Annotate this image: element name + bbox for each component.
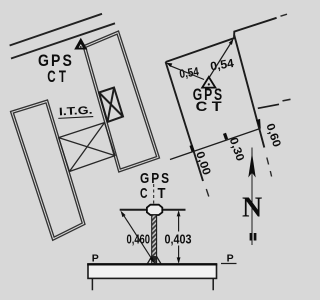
svg-text:C T: C T bbox=[196, 98, 223, 114]
svg-text:T: T bbox=[158, 185, 166, 202]
svg-text:N: N bbox=[242, 193, 262, 224]
svg-text:C: C bbox=[140, 185, 148, 202]
svg-text:C T: C T bbox=[47, 68, 66, 86]
svg-text:0,403: 0,403 bbox=[165, 232, 192, 246]
svg-text:I.T.G.: I.T.G. bbox=[59, 105, 93, 119]
svg-text:0,54: 0,54 bbox=[178, 64, 200, 81]
svg-text:P: P bbox=[227, 253, 234, 265]
svg-text:0,460: 0,460 bbox=[127, 232, 151, 246]
svg-text:P: P bbox=[92, 253, 99, 265]
